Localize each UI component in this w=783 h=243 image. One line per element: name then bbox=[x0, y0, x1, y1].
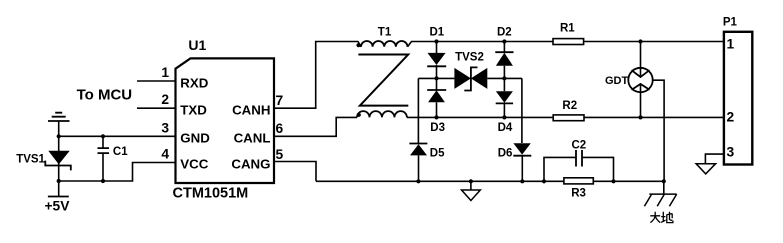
svg-text:T1: T1 bbox=[378, 26, 392, 38]
svg-text:TVS2: TVS2 bbox=[455, 52, 484, 64]
svg-text:R2: R2 bbox=[562, 100, 577, 112]
svg-text:5: 5 bbox=[276, 147, 284, 162]
svg-text:TVS1: TVS1 bbox=[16, 153, 45, 165]
svg-text:GDT: GDT bbox=[605, 75, 629, 87]
svg-text:4: 4 bbox=[161, 147, 169, 162]
svg-text:3: 3 bbox=[727, 144, 735, 159]
svg-text:6: 6 bbox=[276, 121, 284, 136]
svg-text:GND: GND bbox=[180, 131, 210, 146]
svg-text:D6: D6 bbox=[498, 147, 513, 159]
svg-text:CANH: CANH bbox=[232, 102, 270, 117]
svg-text:2: 2 bbox=[161, 92, 169, 107]
svg-text:1: 1 bbox=[727, 37, 735, 52]
svg-text:TXD: TXD bbox=[180, 102, 207, 117]
svg-text:D4: D4 bbox=[498, 122, 513, 134]
svg-text:D2: D2 bbox=[497, 26, 512, 38]
svg-text:CTM1051M: CTM1051M bbox=[173, 185, 249, 201]
svg-text:RXD: RXD bbox=[180, 75, 208, 90]
svg-text:C1: C1 bbox=[113, 146, 128, 158]
svg-text:U1: U1 bbox=[188, 37, 206, 53]
svg-text:VCC: VCC bbox=[180, 157, 208, 172]
svg-text:3: 3 bbox=[161, 120, 169, 135]
svg-text:D3: D3 bbox=[430, 122, 445, 134]
svg-text:1: 1 bbox=[161, 65, 169, 80]
svg-text:+5V: +5V bbox=[45, 199, 71, 214]
svg-text:R3: R3 bbox=[571, 188, 586, 200]
svg-text:D1: D1 bbox=[430, 26, 445, 38]
svg-text:To MCU: To MCU bbox=[77, 87, 133, 104]
svg-text:R1: R1 bbox=[560, 23, 575, 35]
svg-text:D5: D5 bbox=[430, 147, 445, 159]
svg-text:CANG: CANG bbox=[231, 157, 270, 172]
svg-text:7: 7 bbox=[276, 93, 284, 108]
svg-text:2: 2 bbox=[727, 110, 735, 125]
svg-text:C2: C2 bbox=[572, 140, 587, 152]
svg-text:CANL: CANL bbox=[234, 131, 271, 146]
svg-text:P1: P1 bbox=[723, 17, 738, 29]
